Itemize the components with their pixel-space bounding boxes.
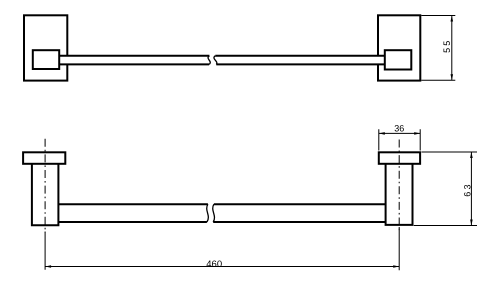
dimension 36: extension lines [379,129,420,150]
svg-text:36: 36 [394,123,404,133]
dimension 36: arrowheads [379,132,385,135]
dimension 460: dimension line [45,266,399,268]
svg-text:460: 460 [206,259,222,270]
dimension 55: extension lines [421,16,455,81]
top view: right post boss (inner rect) [385,50,412,69]
svg-text:55: 55 [442,38,452,52]
front view: left flange cap [23,152,65,164]
front view: right post centerline [398,140,400,234]
svg-text:63: 63 [463,182,473,196]
top view: right wall plate (outer square) [378,15,420,80]
dimension 63: extension lines [414,152,477,226]
front view: right post body [386,164,413,225]
dimension 55: arrowheads [451,16,454,22]
top view: bar left segment (white fill hides plate edge) [59,56,210,65]
dimension 63: dimension line [470,152,472,226]
dimension 460: arrowheads [45,265,51,268]
dimension 63: arrowheads [470,152,473,158]
dimension 36: dimension line [379,132,420,134]
front view: bar left segment [58,204,208,222]
top view: bar right segment [214,56,385,65]
top view: left wall plate (outer square) [24,15,67,80]
front view: left post centerline [44,139,46,233]
dimension 55: dimension line [451,16,453,81]
front view: right flange cap [379,152,420,164]
front view: bar right segment [213,204,386,222]
top view: left post boss (inner rect) [33,50,59,69]
front view: left post body [32,164,59,225]
dimension 460: extension lines [45,227,399,270]
